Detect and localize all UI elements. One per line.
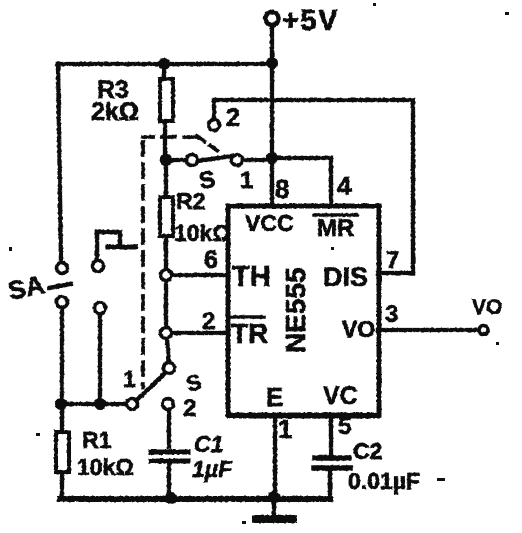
svg-text:1: 1 [278, 414, 292, 444]
wire: bottom rail [60, 496, 330, 502]
wire: C2 to bottom rail [328, 470, 332, 498]
svg-text:R1: R1 [82, 427, 112, 453]
svg-text:TH: TH [232, 261, 271, 293]
wire: TR to pin 2 [172, 331, 228, 335]
svg-text:VCC: VCC [245, 210, 294, 236]
wire: DIS loop right vertical [411, 100, 415, 273]
svg-text:10kΩ: 10kΩ [77, 454, 134, 480]
svg-text:R2: R2 [176, 188, 205, 214]
ground [256, 497, 293, 519]
svg-text:DIS: DIS [323, 262, 368, 292]
node: R3 / switch junction [160, 154, 172, 166]
svg-text:10kΩ: 10kΩ [174, 220, 231, 246]
switch SA pole 2 with trigger mark [93, 232, 137, 403]
svg-text:2: 2 [226, 104, 240, 132]
svg-text:2kΩ: 2kΩ [91, 98, 139, 126]
node: pin1 / bottom rail junction [268, 491, 280, 503]
svg-text:2: 2 [183, 395, 196, 422]
wire: pin 4 branch [272, 158, 331, 206]
switch SA pushbutton pole 1 [5, 263, 71, 308]
wire: TH to pin 6 [172, 273, 228, 277]
svg-text:6: 6 [204, 246, 218, 274]
svg-text:MR: MR [317, 215, 354, 242]
switch S lower section [123, 363, 204, 423]
svg-text:4: 4 [337, 171, 352, 201]
wire: TH to TR segment [164, 281, 168, 327]
svg-text:VO: VO [342, 316, 375, 342]
wire: pin 7 to loop [378, 271, 413, 275]
resistor R2 [160, 160, 231, 269]
node: TR junction circle [161, 328, 172, 339]
node: +5V / top rail junction [266, 57, 278, 69]
resistor R3 [91, 64, 173, 158]
resistor R1 [56, 404, 134, 498]
wire: C1 to bottom rail [167, 463, 171, 498]
svg-text:VO: VO [472, 296, 502, 319]
svg-text:TR: TR [231, 318, 268, 349]
switch S upper section [166, 100, 272, 195]
wire: DIS loop top [214, 98, 413, 102]
label MR with overline [314, 215, 357, 242]
terminal VO [472, 296, 502, 335]
wire: +5V to pin 8 [270, 64, 274, 206]
op-amp U1 NE555 IC body [228, 206, 379, 415]
wire: bottom-left horizontal [60, 402, 126, 406]
capacitor C1 [151, 431, 233, 482]
node: C1 / bottom rail junction [165, 492, 177, 504]
svg-text:C1: C1 [194, 431, 223, 457]
capacitor C2 [314, 438, 420, 494]
dashed linkage line [143, 137, 197, 387]
wire: pin 5 to C2 [329, 415, 333, 456]
svg-text:1µF: 1µF [192, 456, 233, 482]
svg-text:5: 5 [338, 413, 351, 440]
wire: left rail upper [58, 64, 61, 262]
node: pin4 branch junction [266, 152, 278, 164]
svg-text:1: 1 [123, 366, 136, 392]
wire: pin 1 to bottom rail [273, 415, 277, 498]
wire: S lower contact2 to C1 [167, 410, 171, 447]
power terminal +5V [266, 5, 339, 37]
svg-text:E: E [266, 382, 283, 412]
svg-text:1: 1 [240, 167, 253, 194]
wire: +5V stub down [270, 26, 274, 62]
node: TH junction circle [161, 270, 172, 281]
svg-text:+5V: +5V [282, 5, 339, 37]
svg-text:0.01µF: 0.01µF [348, 468, 420, 494]
svg-text:8: 8 [275, 174, 289, 204]
svg-text:7: 7 [386, 247, 399, 274]
label TR with overline [231, 317, 268, 349]
node: top rail / R3 junction [158, 58, 170, 70]
node: SA pole2 / bottom wire junction [94, 398, 106, 410]
wire: top rail [57, 62, 272, 66]
dashed linkage diagonal [197, 136, 222, 154]
svg-text:VC: VC [323, 382, 358, 410]
wire: TR node to switch pole [167, 339, 169, 362]
svg-text:C2: C2 [353, 438, 382, 464]
wire: left rail lower [60, 308, 64, 404]
node: left rail / bottom wire junction [55, 398, 67, 410]
svg-text:NE555: NE555 [280, 267, 311, 353]
svg-text:3: 3 [385, 301, 398, 328]
wire: pin 3 output [378, 328, 477, 332]
